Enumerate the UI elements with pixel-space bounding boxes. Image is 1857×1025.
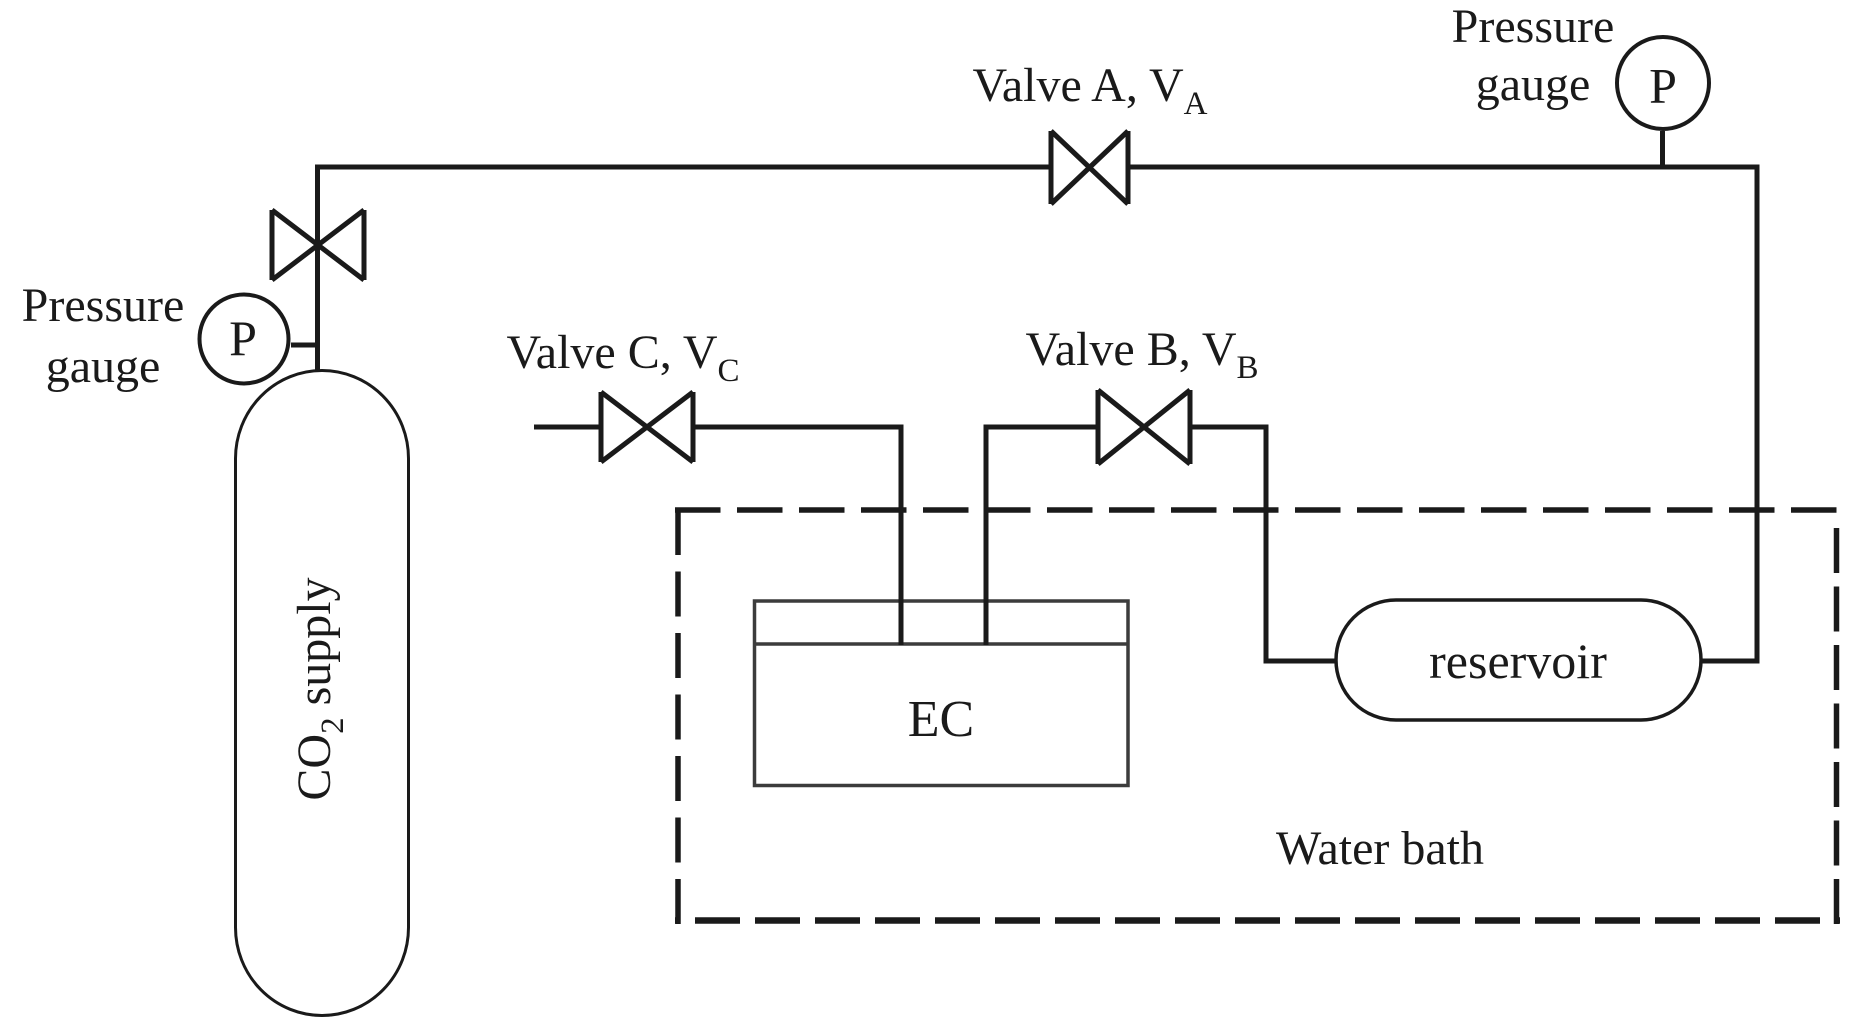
svg-text:P: P	[1649, 58, 1677, 114]
svg-text:EC: EC	[908, 691, 974, 748]
svg-text:Pressure: Pressure	[22, 279, 185, 332]
svg-text:Water bath: Water bath	[1276, 822, 1484, 875]
svg-text:Pressure: Pressure	[1452, 0, 1615, 53]
svg-text:reservoir: reservoir	[1429, 633, 1607, 689]
svg-text:P: P	[229, 310, 257, 366]
svg-text:gauge: gauge	[1476, 58, 1591, 111]
svg-text:gauge: gauge	[46, 340, 161, 393]
